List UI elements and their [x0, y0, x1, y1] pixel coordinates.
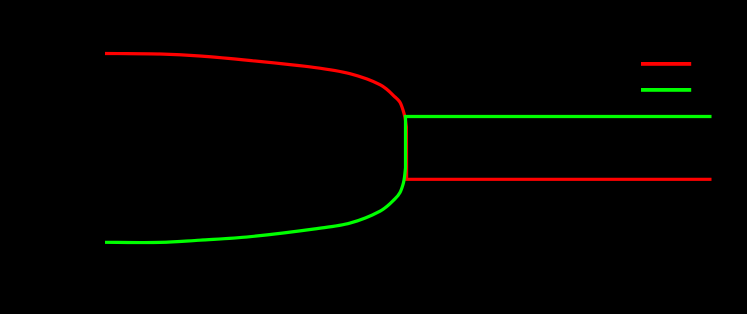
legend green line sample	[641, 88, 691, 92]
red branch curve (upper branch descending to the nose, then lower horizontal line)	[105, 54, 712, 180]
legend red line sample	[641, 62, 691, 66]
green branch curve (lower branch rising to the nose, then upper horizontal line)	[105, 117, 712, 243]
